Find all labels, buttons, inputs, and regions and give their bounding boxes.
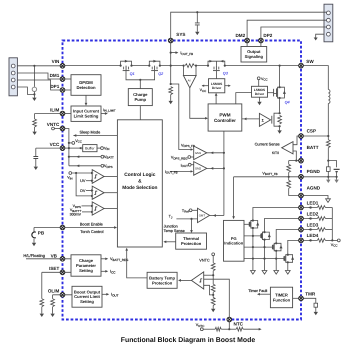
svg-text:Functional Block Diagram in Bo: Functional Block Diagram in Boost Mode <box>121 337 256 344</box>
wire Boost Enable / Torch Control <box>63 227 117 229</box>
wire <box>212 295 214 298</box>
junction LED1 <box>310 206 312 208</box>
svg-text:ICC: ICC <box>110 270 116 275</box>
wire battery to PGND <box>336 172 338 177</box>
ground <box>32 243 36 246</box>
wire cap to ground <box>35 159 37 167</box>
arrowhead <box>228 85 231 87</box>
terminal Vcc <box>257 77 260 80</box>
amplifier GMT <box>198 208 210 222</box>
op-amp current sense <box>282 142 293 154</box>
wire Buffer out <box>97 147 101 149</box>
arrowhead <box>176 51 179 54</box>
junction SYS rail <box>170 65 172 67</box>
wire OLIM to resistor <box>52 295 54 299</box>
wire DP1 to block <box>63 89 72 91</box>
block PG Indication <box>224 220 245 261</box>
wire NTC pin down <box>228 320 230 330</box>
svg-text:Controller: Controller <box>214 118 236 123</box>
svg-text:VNTC: VNTC <box>199 259 210 263</box>
wire divider to AGND <box>289 188 301 195</box>
pin ILIM <box>60 111 65 116</box>
svg-text:Q1: Q1 <box>130 72 135 76</box>
wire LED2 external <box>301 218 317 220</box>
ground AGND (open) <box>326 199 331 203</box>
wire cap to ground <box>196 25 198 32</box>
arrowhead <box>105 112 108 115</box>
ground <box>195 32 199 35</box>
pin LED2 <box>299 216 304 221</box>
wire UV comparator output <box>104 175 117 177</box>
svg-text:AGND: AGND <box>307 185 321 190</box>
pin DP2 <box>259 38 264 43</box>
wire to UV comparator <box>72 172 93 174</box>
resistor R_ILIM <box>33 119 37 127</box>
wire driver1 Vcc stub <box>202 85 209 87</box>
wire TMR external <box>301 298 316 303</box>
wire cap to ground <box>33 92 35 98</box>
arrowhead <box>210 151 213 154</box>
svg-text:Buffer: Buffer <box>85 146 95 150</box>
wire Q4 to battery FET <box>279 98 281 113</box>
amplifier GM2 <box>194 162 207 176</box>
wire Vdps input <box>82 205 93 207</box>
junction <box>183 65 185 67</box>
block Charge Pump <box>128 89 152 106</box>
svg-text:DP1: DP1 <box>50 84 59 89</box>
junction <box>159 65 161 67</box>
svg-text:VCC: VCC <box>75 139 83 144</box>
wire connector pin4 ground <box>316 34 324 37</box>
block Input Current Limit Setting <box>71 106 101 121</box>
wire charge pump to control logic <box>139 106 141 120</box>
resistor R_OLIM <box>51 299 55 307</box>
wire <box>325 229 332 231</box>
svg-text:VDPS_REG: VDPS_REG <box>171 156 188 161</box>
junction <box>252 219 254 221</box>
junction <box>263 239 265 241</box>
arrowhead <box>85 103 88 106</box>
wire <box>41 307 43 314</box>
terminal VNTC <box>212 253 215 256</box>
wire LED1 source <box>252 228 254 271</box>
svg-text:IOUT: IOUT <box>111 293 119 298</box>
junction <box>287 254 289 256</box>
wire VCC to rail <box>63 147 69 149</box>
pin SYS <box>168 38 173 43</box>
arrowhead <box>106 293 109 296</box>
svg-text:VNTC: VNTC <box>47 122 60 127</box>
wire DM1 <box>17 73 62 79</box>
resistor NTC divider 1 <box>211 263 215 271</box>
svg-text:SYS: SYS <box>176 32 185 37</box>
junction <box>275 242 277 244</box>
junction <box>120 65 122 67</box>
wire CSP <box>301 135 328 137</box>
wire <box>325 207 332 209</box>
junction Iout_fb tap <box>170 52 172 54</box>
arrowhead Sleep Mode <box>73 134 76 137</box>
junction gate bus <box>139 79 141 81</box>
wire Q1/Q2 gate bus <box>126 71 155 80</box>
terminal Vdps <box>101 164 104 167</box>
resistor NTC pullup <box>215 327 221 331</box>
terminal Vbatt <box>101 155 104 158</box>
pin VIN <box>60 64 65 69</box>
svg-text:VBATT_REG: VBATT_REG <box>110 257 129 262</box>
resistor R_SENSE <box>185 64 194 68</box>
terminal VNTC <box>52 127 55 130</box>
wire GMT out <box>210 215 224 217</box>
junction <box>68 156 70 158</box>
svg-text:Q2: Q2 <box>158 72 164 76</box>
svg-text:OV: OV <box>80 189 86 193</box>
arrowhead <box>259 328 262 331</box>
wire <box>192 209 198 211</box>
transistor Q3 <box>208 60 229 76</box>
wire Iout_fb input <box>170 170 192 172</box>
junction <box>224 65 226 67</box>
arrowhead <box>210 167 213 170</box>
svg-text:PB: PB <box>38 231 45 236</box>
capacitor C_TMR <box>314 303 318 307</box>
wire DPS comparator output <box>104 208 117 210</box>
svg-text:TJ: TJ <box>169 215 173 220</box>
ground <box>169 101 173 104</box>
svg-text:Signaling: Signaling <box>245 54 264 59</box>
junction <box>148 65 150 67</box>
ground <box>257 102 261 105</box>
junction <box>170 83 172 85</box>
resistor R_LED2 <box>317 217 325 221</box>
ground (open) LED2 <box>262 271 267 275</box>
wire comparator to battery temp block <box>179 279 192 281</box>
wire <box>34 114 36 120</box>
svg-text:DM1: DM1 <box>50 73 60 78</box>
junction <box>195 65 197 67</box>
junction VIN input cap <box>33 65 35 67</box>
svg-text:Temp Sense: Temp Sense <box>164 229 185 233</box>
wire driver1 right stub <box>225 85 230 87</box>
ground <box>50 314 54 317</box>
junction <box>68 142 70 144</box>
svg-text:DM2: DM2 <box>235 33 245 38</box>
junction <box>252 246 254 248</box>
ground <box>314 312 318 315</box>
svg-text:Control Logic: Control Logic <box>124 172 156 178</box>
wire to VCC cap <box>35 148 37 156</box>
block TIMER Function <box>270 287 292 308</box>
block Control Logic and Mode Selection <box>117 120 162 247</box>
resistor divider bottom <box>287 180 291 188</box>
wire BATT to sense amp <box>293 151 296 161</box>
block Thermal Protection <box>176 233 207 249</box>
svg-text:Sleep Mode: Sleep Mode <box>80 130 101 135</box>
wire TMR <box>293 297 301 299</box>
svg-text:VB: VB <box>51 253 58 258</box>
junction BATT node <box>327 160 329 162</box>
wire <box>315 307 317 312</box>
wire detection to limit block <box>85 95 87 104</box>
wire ISET <box>42 271 71 273</box>
wire SW to Q4 <box>279 66 281 88</box>
terminal Vdps_reg <box>188 156 191 159</box>
svg-text:IOUT_FB: IOUT_FB <box>165 170 178 175</box>
wire <box>288 177 290 181</box>
wire PWM to driver2 <box>236 93 252 104</box>
wire to Buffer <box>69 147 83 149</box>
svg-text:PWM: PWM <box>219 112 230 117</box>
resistor R_CS (external sense) <box>326 140 330 148</box>
wire LED4 drain <box>288 240 301 254</box>
svg-text:TRef: TRef <box>182 209 189 214</box>
junction SW node <box>279 65 281 67</box>
svg-text:VDPS_FB: VDPS_FB <box>181 143 195 148</box>
wire LED resistor rail <box>331 208 333 241</box>
inductor L1 <box>328 90 330 104</box>
capacitor C_BATT <box>327 167 331 172</box>
wire gate LED2 <box>244 235 261 237</box>
wire <box>34 127 36 132</box>
svg-text:IOUT_FB: IOUT_FB <box>180 51 193 56</box>
svg-text:LED2: LED2 <box>307 211 319 216</box>
wire to comparator + <box>204 274 214 276</box>
svg-text:Protection: Protection <box>152 280 173 285</box>
transistor M <box>284 255 294 263</box>
pin DM2 <box>245 38 250 43</box>
resistor R_LED1 <box>317 206 325 210</box>
svg-text:VCC: VCC <box>200 88 207 93</box>
wire LED2 source <box>264 240 266 271</box>
arrowhead <box>191 148 194 150</box>
pin ISET <box>60 270 65 275</box>
pin BATT <box>299 158 304 163</box>
svg-text:Setting: Setting <box>79 268 93 273</box>
op-amp A1 <box>183 75 196 87</box>
svg-text:GMT: GMT <box>199 214 206 218</box>
wire <box>212 305 214 308</box>
wire TJ input <box>176 218 197 220</box>
svg-text:ISET: ISET <box>49 266 59 271</box>
svg-text:Setting: Setting <box>80 299 94 304</box>
svg-text:VCC: VCC <box>50 142 60 147</box>
wire LED1 drain <box>253 208 301 221</box>
wire <box>212 275 214 284</box>
terminal Vcc <box>337 239 340 242</box>
arrowhead <box>215 93 218 96</box>
svg-text:Mode Selection: Mode Selection <box>122 185 157 191</box>
arrowhead <box>232 216 235 219</box>
ground <box>32 132 36 135</box>
arrowhead <box>163 240 166 243</box>
arrowhead <box>308 217 310 219</box>
svg-text:OLIM: OLIM <box>48 289 60 294</box>
wire <box>288 161 290 165</box>
wire FET to ground <box>279 126 281 130</box>
svg-text:Timer Fault: Timer Fault <box>248 289 268 293</box>
svg-text:DP2: DP2 <box>263 33 272 38</box>
pin LED3 <box>299 227 304 232</box>
terminal Vin comparator input <box>69 172 72 175</box>
wire Icc out <box>101 270 107 272</box>
pin LED4 <box>299 238 304 243</box>
arrowhead <box>91 172 94 174</box>
wire SYS to output connector <box>171 12 327 40</box>
wire Iin_limit out <box>101 113 107 115</box>
wire Vdps_fb to GM1 <box>171 84 193 150</box>
battery BT1 <box>334 169 340 171</box>
svg-text:Current Sense: Current Sense <box>255 142 280 147</box>
svg-text:GM2: GM2 <box>195 167 202 171</box>
junction <box>252 227 254 229</box>
wire <box>191 164 194 166</box>
connector J1 (USB input) <box>9 58 17 96</box>
wire VB <box>26 258 71 260</box>
ground (open) LED1 <box>251 271 256 275</box>
wire gate LED4 <box>244 258 284 260</box>
capacitor C_IN <box>32 87 36 91</box>
wire ISET to resistor <box>41 272 43 298</box>
junction <box>263 231 265 233</box>
svg-text:CSP: CSP <box>307 128 316 133</box>
wire VNTC <box>54 128 62 130</box>
wire LED2 drain <box>265 219 302 233</box>
wire to input cap <box>33 66 35 87</box>
resistor NTC divider 3 <box>211 297 215 305</box>
transistor M <box>272 243 282 251</box>
wire <box>325 218 332 220</box>
wire to battery <box>328 161 336 168</box>
svg-text:Q4: Q4 <box>285 101 291 105</box>
wire PWM compensation rail <box>223 131 225 215</box>
svg-text:BATT: BATT <box>307 145 319 150</box>
pin NTC <box>227 317 232 322</box>
wire <box>221 328 236 330</box>
block LSMOS Driver 2 <box>252 86 268 97</box>
svg-text:AI: AI <box>188 79 191 83</box>
svg-text:300mV: 300mV <box>70 212 82 216</box>
svg-text:Limit Setting: Limit Setting <box>74 114 99 119</box>
block Boost Output Current Limit Setting <box>72 286 102 307</box>
ground <box>211 309 215 312</box>
svg-text:ILIM: ILIM <box>50 107 59 112</box>
svg-text:Protection: Protection <box>181 241 202 246</box>
wire LED3 drain <box>276 230 301 244</box>
svg-text:IOUT: IOUT <box>181 163 188 168</box>
junction <box>212 294 214 296</box>
terminal Vin <box>101 147 104 150</box>
wire GM2 out <box>207 167 224 169</box>
ground <box>334 180 338 183</box>
pin DP1 <box>60 88 65 93</box>
junction <box>331 239 333 241</box>
wire sense taps <box>184 66 196 76</box>
wire UV threshold <box>86 180 92 182</box>
capacitor C_VCC <box>33 157 38 159</box>
capacitor C_SYS <box>195 23 200 25</box>
wire <box>191 156 194 158</box>
wire LED4 external <box>301 239 317 241</box>
arrowhead <box>308 228 310 230</box>
resistor R_ISET <box>40 299 44 307</box>
wire LED4 source <box>287 262 289 270</box>
wire gate bus to charge pump <box>139 80 141 89</box>
transistor Q1 <box>121 60 135 76</box>
arrowhead <box>91 189 94 191</box>
wire DM2 to connector <box>247 20 326 40</box>
wire to pushbutton <box>33 228 35 232</box>
arrowhead <box>91 211 94 213</box>
block Charge Parameter Setting <box>71 255 101 276</box>
comparator battery temp <box>191 272 203 289</box>
wire ILIM <box>35 113 63 115</box>
connector J2 (USB output) <box>324 4 333 42</box>
junction <box>275 250 277 252</box>
wire LED3 external <box>301 229 317 231</box>
ground <box>277 130 281 133</box>
wire PWM to driver1 <box>215 94 217 104</box>
arrowhead <box>190 230 193 233</box>
pin VB <box>60 257 65 262</box>
wire <box>327 148 329 161</box>
arrowhead <box>213 214 216 217</box>
wire Q3 gate <box>215 71 217 79</box>
wire SW to inductor <box>301 66 328 90</box>
wire <box>203 328 215 330</box>
svg-text:VDPS: VDPS <box>104 164 113 169</box>
svg-text:Torch Control: Torch Control <box>80 229 103 234</box>
wire OLIM <box>53 294 72 296</box>
amplifier GM1 <box>194 146 207 160</box>
svg-text:Boost Enable: Boost Enable <box>80 222 103 227</box>
wire GM1 out <box>207 152 224 154</box>
svg-text:Indication: Indication <box>224 241 243 246</box>
terminal Vntc <box>200 328 203 331</box>
svg-text:VBATT: VBATT <box>104 155 114 160</box>
arrowhead <box>202 85 205 87</box>
block Battery Temp Protection <box>147 272 177 288</box>
junction SYS cap <box>196 11 198 13</box>
junction <box>252 258 254 260</box>
junction <box>279 112 281 114</box>
block Buffer <box>83 145 97 152</box>
arrowhead <box>114 226 117 229</box>
arrowhead <box>76 164 79 167</box>
wire DM2/DP2 to output signaling <box>247 41 261 47</box>
wire VCC <box>36 147 63 149</box>
arrowhead <box>257 293 260 296</box>
wire <box>288 172 290 177</box>
wire <box>212 271 214 275</box>
junction <box>212 274 214 276</box>
ground <box>314 38 318 41</box>
wire PB <box>34 227 63 229</box>
wire Iout_fb <box>171 52 177 54</box>
svg-text:VCC: VCC <box>261 77 268 82</box>
wire SYS to rail <box>170 41 172 66</box>
resistor NTC series <box>236 327 243 331</box>
arrowhead <box>308 206 310 208</box>
comparator OV <box>92 186 104 199</box>
wire ILIM to block <box>63 113 72 115</box>
arrowhead <box>244 118 247 121</box>
svg-text:SW: SW <box>306 59 314 64</box>
junction <box>75 172 77 174</box>
arrowhead <box>91 205 94 207</box>
block LSMOS Driver 1 <box>209 79 225 93</box>
pin TMR <box>299 296 304 301</box>
wire connector pin4 to ground node <box>17 87 34 94</box>
